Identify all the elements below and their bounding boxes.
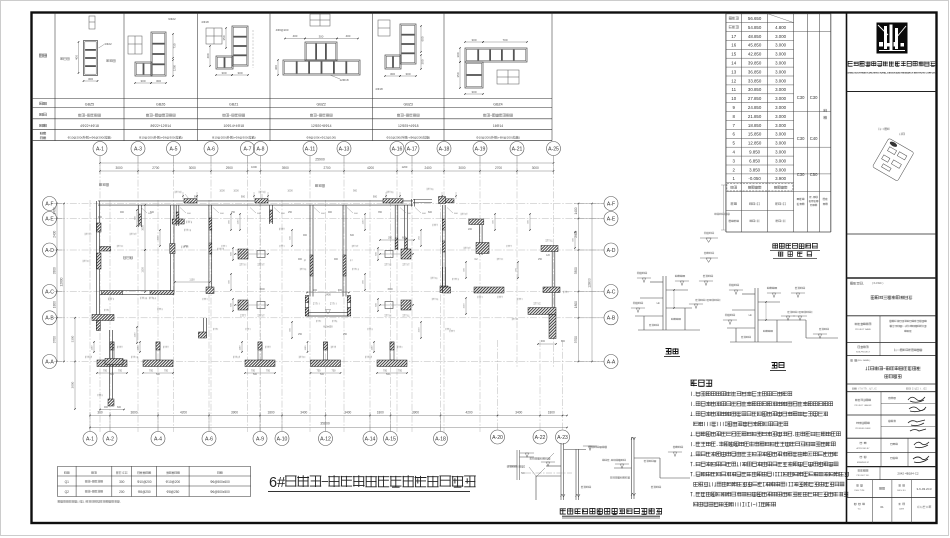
extra clutter tick pairs at hatches — [182, 195, 184, 197]
svg-text:Φ8@250: Φ8@250 — [166, 490, 179, 494]
svg-text:700: 700 — [502, 38, 507, 42]
svg-text:A-3: A-3 — [134, 147, 142, 153]
corridor pier leader labels — [175, 191, 182, 193]
bottom overall dimension 35800 — [90, 427, 567, 429]
stair dims — [307, 292, 349, 294]
svg-text:15: 15 — [731, 52, 736, 57]
svg-text:A-B: A-B — [45, 316, 54, 322]
svg-text:4200: 4200 — [180, 411, 187, 415]
svg-text:3.000: 3.000 — [775, 61, 787, 66]
owner name — [871, 296, 912, 300]
svg-text:A-6: A-6 — [207, 147, 215, 153]
svg-text:1000: 1000 — [287, 190, 293, 193]
svg-text:300: 300 — [456, 52, 460, 57]
scattered small dimension marks — [230, 214, 232, 230]
svg-text:900: 900 — [298, 258, 303, 261]
title block section lines — [847, 91, 937, 93]
company logo black box — [877, 23, 908, 54]
svg-text:900: 900 — [313, 289, 318, 292]
notes lines — [692, 391, 793, 396]
signatures handwriting — [908, 397, 926, 431]
svg-text:1500: 1500 — [142, 267, 145, 273]
detail figure 2 — [754, 288, 756, 342]
svg-text:700: 700 — [266, 370, 271, 373]
left vertical dimensions — [56, 204, 58, 362]
svg-text:3000: 3000 — [189, 166, 196, 170]
svg-text:12800: 12800 — [588, 278, 592, 288]
svg-text:21.850: 21.850 — [748, 114, 762, 119]
svg-text:(DWG. NAME):: (DWG. NAME): — [856, 359, 871, 362]
column pair A-C at A-9 — [238, 300, 248, 310]
svg-text:400: 400 — [346, 34, 351, 38]
svg-text:10Φ14+4Φ18: 10Φ14+4Φ18 — [223, 124, 244, 128]
svg-text:400: 400 — [206, 53, 210, 58]
svg-text:DWG. NO.: DWG. NO. — [897, 490, 907, 492]
pool room label — [123, 256, 133, 259]
axis bubbles right — [604, 197, 618, 211]
A-18 top wall piece GBZ23 — [439, 197, 446, 204]
svg-text:12Φ18: 12Φ18 — [339, 78, 348, 82]
svg-text:900: 900 — [328, 211, 333, 214]
svg-text:1200: 1200 — [173, 64, 177, 71]
axis bubbles left — [43, 197, 57, 211]
svg-text:9Φ22: 9Φ22 — [168, 17, 176, 21]
svg-text:-0.050: -0.050 — [748, 176, 761, 181]
svg-text:200: 200 — [468, 228, 473, 231]
dashed highlight around base row — [727, 184, 793, 191]
svg-text:A-9: A-9 — [256, 437, 264, 443]
approval rows — [880, 438, 882, 466]
svg-text:A-15: A-15 — [385, 437, 396, 443]
svg-text:900: 900 — [338, 289, 343, 292]
axis bubbles top — [93, 142, 107, 156]
svg-text:45.850: 45.850 — [748, 43, 762, 48]
svg-text:300: 300 — [319, 34, 324, 38]
pool room outer walls — [95, 201, 97, 295]
svg-text:700: 700 — [103, 370, 108, 373]
top segment dimensions — [100, 170, 554, 172]
left boundary wall below room — [95, 295, 97, 331]
soil side labels — [99, 183, 109, 186]
svg-text:A-7: A-7 — [244, 147, 252, 153]
wall stub at A-5 GBZ53 — [175, 205, 177, 226]
level symbol legend — [706, 258, 711, 262]
svg-text:6#: 6# — [269, 475, 285, 491]
svg-text:PROJECT LEADER: PROJECT LEADER — [855, 404, 873, 407]
svg-text:4200: 4200 — [465, 411, 472, 415]
svg-text:2700: 2700 — [152, 166, 159, 170]
section drawing GBZ4 — [465, 48, 527, 62]
svg-text:3.000: 3.000 — [775, 87, 787, 92]
svg-text:700: 700 — [118, 370, 123, 373]
svg-text:12800: 12800 — [60, 277, 64, 286]
key plan rotated site sketch — [872, 138, 914, 181]
A-25 big tee at A-B GBZ10 — [528, 308, 556, 315]
room bottom hatched walls GBZ1 GBZ4a — [102, 291, 123, 295]
svg-text:1000: 1000 — [233, 190, 239, 193]
A-19 T foot at A-C — [474, 287, 504, 293]
svg-text:A-21: A-21 — [512, 147, 523, 153]
svg-text:1100: 1100 — [92, 345, 94, 350]
svg-text:12: 12 — [731, 78, 736, 83]
svg-text:A-F: A-F — [607, 201, 615, 207]
svg-text:600: 600 — [150, 211, 155, 214]
A-B tee on left wall — [92, 315, 114, 321]
leader texts scattered — [222, 245, 227, 247]
svg-text:3300: 3300 — [71, 335, 75, 342]
svg-text:A-A: A-A — [45, 359, 54, 365]
L wall at A-6 below A-B — [203, 318, 205, 338]
top column-section schedule table — [32, 98, 553, 100]
svg-text:A-11: A-11 — [305, 147, 316, 153]
svg-text:PROJECT NAME: PROJECT NAME — [855, 328, 871, 331]
table footer header labels — [731, 203, 737, 206]
drawing name field — [850, 359, 858, 361]
svg-text:4200: 4200 — [367, 166, 374, 170]
svg-text:9.850: 9.850 — [749, 150, 761, 155]
svg-text:13: 13 — [731, 69, 736, 74]
section drawing GBZ3 — [400, 24, 416, 64]
svg-text:1100: 1100 — [363, 219, 365, 224]
svg-text:Q1: Q1 — [65, 480, 69, 484]
elevation table caption — [772, 243, 817, 248]
svg-text:3300: 3300 — [53, 267, 57, 274]
left lower vertical dimension — [74, 318, 76, 362]
svg-text:900: 900 — [334, 258, 339, 261]
column pair A-D at A-15 — [401, 249, 411, 259]
svg-text:500: 500 — [110, 373, 115, 376]
svg-text:2700: 2700 — [323, 166, 330, 170]
svg-text:12Φ20+8Φ14: 12Φ20+8Φ14 — [311, 124, 332, 128]
svg-text:4.800: 4.800 — [775, 25, 787, 30]
svg-text:3.000: 3.000 — [775, 167, 787, 172]
svg-text:200: 200 — [119, 490, 125, 494]
svg-text:1800: 1800 — [574, 301, 578, 308]
svg-text:500: 500 — [156, 373, 161, 376]
svg-text:3000: 3000 — [115, 166, 122, 170]
svg-text:600: 600 — [350, 234, 355, 237]
figure 2 right extension — [784, 319, 806, 321]
svg-text:1000: 1000 — [251, 165, 257, 169]
svg-text:4Φ6@200: 4Φ6@200 — [276, 28, 289, 32]
svg-text:300: 300 — [274, 65, 278, 70]
svg-text:900: 900 — [373, 195, 378, 198]
axis bubbles bottom — [83, 432, 97, 446]
svg-text:3.000: 3.000 — [775, 96, 787, 101]
svg-text:A-E: A-E — [45, 216, 54, 222]
svg-text:350: 350 — [456, 72, 460, 77]
svg-text:4Φ22+4Φ18: 4Φ22+4Φ18 — [80, 124, 99, 128]
svg-text:300: 300 — [471, 38, 476, 42]
svg-text:A-F: A-F — [45, 201, 53, 207]
svg-text:EXAMINED BY: EXAMINED BY — [857, 461, 870, 464]
svg-text:3.900: 3.900 — [775, 176, 787, 181]
elevation table left annotations — [714, 213, 729, 215]
svg-text:2042·4B184·C2: 2042·4B184·C2 — [897, 472, 919, 476]
owner field — [850, 282, 864, 285]
left wall hatch pieces — [97, 223, 101, 232]
svg-text:250: 250 — [298, 333, 303, 336]
svg-text:A-1: A-1 — [86, 437, 94, 443]
bottom segment dimensions — [90, 415, 567, 417]
figure 2 label — [772, 363, 785, 369]
svg-text:6.850: 6.850 — [749, 158, 761, 163]
svg-text:A-18: A-18 — [435, 437, 446, 443]
svg-text:A-25: A-25 — [548, 147, 559, 153]
svg-text:1100: 1100 — [305, 345, 307, 350]
svg-text:A-13: A-13 — [339, 147, 350, 153]
svg-text:GBZ6: GBZ6 — [156, 103, 165, 107]
column pair A-D at A-9 — [238, 249, 248, 259]
left wall to A-A and foot — [109, 330, 111, 362]
svg-text:2700: 2700 — [495, 166, 502, 170]
elevation table data — [729, 17, 739, 20]
svg-text:14: 14 — [731, 61, 736, 66]
svg-text:1500: 1500 — [158, 235, 160, 241]
project leader field — [880, 392, 882, 439]
svg-text:1200: 1200 — [402, 165, 408, 169]
column pair A-C at A-15 — [401, 300, 411, 310]
svg-text:1000: 1000 — [219, 190, 225, 193]
stair U wall — [304, 297, 306, 317]
svg-text:A-C: A-C — [607, 289, 616, 295]
edge member elevation schematic right part — [631, 437, 633, 499]
A-A tee column at A-9 — [258, 342, 262, 360]
left overall dimension 12800 — [63, 204, 65, 362]
svg-text:300: 300 — [97, 411, 103, 415]
svg-text:500: 500 — [253, 373, 258, 376]
svg-text:48.850: 48.850 — [748, 34, 762, 39]
svg-text:A-20: A-20 — [492, 435, 503, 441]
svg-text:3400: 3400 — [515, 411, 522, 415]
svg-text:Φ10@200: Φ10@200 — [166, 480, 181, 484]
svg-text:A-C: A-C — [45, 289, 54, 295]
svg-text:A-19: A-19 — [475, 147, 486, 153]
svg-text:2000: 2000 — [71, 381, 75, 388]
svg-text:56.650: 56.650 — [748, 16, 762, 21]
svg-text:C30: C30 — [810, 95, 818, 100]
svg-text:Φ10@200: Φ10@200 — [137, 480, 152, 484]
svg-text:700: 700 — [332, 370, 337, 373]
svg-text:3000: 3000 — [142, 225, 145, 231]
svg-text:3000: 3000 — [532, 166, 539, 170]
svg-text:A-5: A-5 — [170, 147, 178, 153]
svg-text:01: 01 — [880, 505, 884, 509]
svg-text:250: 250 — [343, 333, 348, 336]
svg-text:4Φ18: 4Φ18 — [375, 87, 383, 91]
wall drop at A-7 — [269, 205, 271, 224]
left wall tee A-D — [100, 247, 111, 252]
svg-text:4Φ18: 4Φ18 — [201, 20, 209, 24]
stair core left stem wall — [309, 205, 311, 297]
svg-text:A-17: A-17 — [407, 147, 418, 153]
svg-text:1500: 1500 — [259, 288, 265, 291]
svg-text:17: 17 — [731, 34, 736, 39]
svg-text:600x600: 600x600 — [323, 326, 333, 329]
svg-text:3700: 3700 — [53, 336, 57, 343]
svg-text:A-1: A-1 — [96, 147, 104, 153]
svg-text:A-18: A-18 — [439, 147, 450, 153]
svg-text:900: 900 — [241, 195, 246, 198]
project name field — [879, 316, 881, 343]
svg-text:Φ10@200(外侧)+Φ6@200(拉筋): Φ10@200(外侧)+Φ6@200(拉筋) — [476, 134, 520, 139]
svg-text:C30: C30 — [797, 172, 805, 177]
project number row — [879, 467, 881, 480]
svg-text:35800: 35800 — [320, 422, 330, 426]
svg-text:DATE: DATE — [899, 508, 905, 511]
svg-text:A-6: A-6 — [205, 437, 213, 443]
table row labels — [39, 54, 47, 58]
svg-text:600: 600 — [428, 211, 433, 214]
svg-text:900: 900 — [541, 340, 546, 343]
svg-text:300: 300 — [390, 72, 395, 76]
svg-text:GBZ2: GBZ2 — [317, 103, 326, 107]
svg-text:11: 11 — [731, 87, 736, 92]
svg-text:42.850: 42.850 — [748, 52, 762, 57]
wall stub at A-3 — [138, 205, 140, 227]
svg-text:A-14: A-14 — [365, 437, 376, 443]
svg-text:1100: 1100 — [372, 345, 374, 350]
svg-text:3.850: 3.850 — [749, 167, 761, 172]
svg-text:A-16: A-16 — [392, 147, 403, 153]
svg-text:25900: 25900 — [315, 158, 325, 162]
A-A tee column at A-1 — [110, 342, 114, 360]
svg-text:DWG.TYPE: DWG.TYPE — [854, 490, 865, 492]
svg-text:SUB-PROJECT: SUB-PROJECT — [856, 352, 871, 354]
svg-text:3.000: 3.000 — [775, 69, 787, 74]
svg-text:300: 300 — [237, 71, 242, 75]
svg-text:2400: 2400 — [53, 230, 57, 237]
svg-text:A-2: A-2 — [106, 437, 114, 443]
svg-text:12Φ25+4Φ18: 12Φ25+4Φ18 — [398, 124, 419, 128]
svg-text:900: 900 — [104, 406, 109, 409]
svg-text:730: 730 — [173, 43, 177, 48]
detail figure 1 — [662, 276, 664, 330]
svg-text:PROJECT NO.: PROJECT NO. — [857, 475, 870, 477]
svg-text:3.000: 3.000 — [775, 123, 787, 128]
svg-text:300: 300 — [140, 79, 145, 83]
version and date row — [854, 503, 865, 505]
svg-text:APPROVED BY: APPROVED BY — [857, 447, 871, 450]
storey elevation table — [726, 13, 794, 15]
svg-text:A-4: A-4 — [154, 437, 162, 443]
svg-text:300: 300 — [156, 79, 161, 83]
svg-text:3300: 3300 — [574, 267, 578, 274]
svg-text:GBZ5: GBZ5 — [85, 103, 94, 107]
svg-text:300: 300 — [119, 480, 125, 484]
svg-text:3.000: 3.000 — [775, 78, 787, 83]
L wall at A-18 below A-D — [442, 267, 444, 293]
svg-text:900: 900 — [98, 216, 103, 219]
svg-text:GBZ4: GBZ4 — [493, 103, 502, 107]
section drawing GBZ5 — [84, 41, 98, 76]
svg-text:3.000: 3.000 — [775, 43, 787, 48]
svg-text:36.850: 36.850 — [748, 69, 762, 74]
svg-text:Φ10@200(外侧)+Φ6@300(拉筋): Φ10@200(外侧)+Φ6@300(拉筋) — [212, 134, 256, 139]
svg-text:300: 300 — [88, 77, 93, 81]
svg-text:A-B: A-B — [607, 316, 616, 322]
title block left border — [846, 13, 848, 524]
seismic grade — [824, 109, 827, 112]
A-A tee column at A-12 — [324, 342, 328, 360]
svg-text:18.850: 18.850 — [748, 123, 762, 128]
edge member elevation schematic left part — [560, 443, 562, 500]
svg-text:C30: C30 — [797, 95, 805, 100]
room interior dims — [144, 205, 146, 250]
schematic caption — [560, 508, 662, 514]
svg-text:1800: 1800 — [377, 411, 384, 415]
svg-text:39.850: 39.850 — [748, 61, 762, 66]
A-A tee column at A-4 — [156, 342, 160, 360]
svg-text:12.850: 12.850 — [748, 141, 762, 146]
svg-text:3.000: 3.000 — [775, 105, 787, 110]
svg-text:600: 600 — [117, 406, 122, 409]
svg-text:700: 700 — [398, 370, 403, 373]
caption underline — [268, 491, 470, 493]
section drawing GBZ2 wide T — [305, 42, 337, 61]
svg-text:A-10: A-10 — [277, 437, 288, 443]
svg-text:Hn: Hn — [657, 301, 661, 305]
svg-text:300: 300 — [221, 71, 226, 75]
svg-text:600: 600 — [561, 340, 566, 343]
svg-text:900: 900 — [353, 190, 358, 193]
svg-text:1800: 1800 — [53, 301, 57, 308]
svg-text:C30: C30 — [797, 136, 805, 141]
A-A tee column at A-15 — [390, 342, 394, 360]
svg-text:15.850: 15.850 — [748, 132, 762, 137]
svg-text:250: 250 — [538, 258, 543, 261]
svg-text:3-6-03.2C3: 3-6-03.2C3 — [916, 487, 931, 491]
svg-text:4Φ22: 4Φ22 — [104, 42, 112, 46]
svg-text:A-23: A-23 — [557, 435, 568, 441]
room right wall T flange GBZ3 — [172, 219, 184, 224]
svg-text:2400: 2400 — [424, 166, 431, 170]
svg-text:3.000: 3.000 — [775, 141, 787, 146]
svg-text:350: 350 — [222, 35, 226, 40]
svg-text:A-12: A-12 — [320, 437, 331, 443]
svg-text:Hn: Hn — [749, 313, 753, 317]
svg-text:400: 400 — [74, 55, 78, 60]
svg-text:PROFESS.CHIEF: PROFESS.CHIEF — [855, 428, 871, 430]
svg-text:2400: 2400 — [325, 294, 331, 297]
A-19 horizontal bar GBZ19 — [469, 219, 484, 225]
svg-text:400: 400 — [293, 34, 298, 38]
svg-text:3900: 3900 — [282, 166, 289, 170]
svg-text:A-22: A-22 — [535, 435, 546, 441]
section drawing GBZ6 — [151, 32, 166, 76]
svg-text:C50: C50 — [810, 172, 818, 177]
svg-text:3000: 3000 — [458, 166, 465, 170]
stair core right stem wall — [342, 205, 344, 297]
svg-text:1500: 1500 — [464, 303, 466, 309]
svg-text:1100: 1100 — [240, 345, 242, 350]
svg-text:3900: 3900 — [231, 411, 238, 415]
svg-text:3.000: 3.000 — [775, 52, 787, 57]
long wall at A-6 corridor to A-C — [208, 205, 210, 294]
vertical grid lines — [99, 156, 101, 432]
svg-text:350: 350 — [388, 237, 393, 240]
svg-text:600: 600 — [421, 36, 425, 41]
svg-text:10: 10 — [731, 96, 736, 101]
svg-text:( KJ-WC ): ( KJ-WC ) — [872, 281, 884, 285]
A-19 wall down — [479, 225, 481, 256]
svg-text:3.000: 3.000 — [775, 114, 787, 119]
wall schedule table — [58, 465, 251, 467]
svg-text:30.850: 30.850 — [748, 87, 762, 92]
svg-text:300: 300 — [421, 59, 425, 64]
svg-text:Q2: Q2 — [65, 490, 69, 494]
svg-text:250: 250 — [288, 211, 293, 214]
